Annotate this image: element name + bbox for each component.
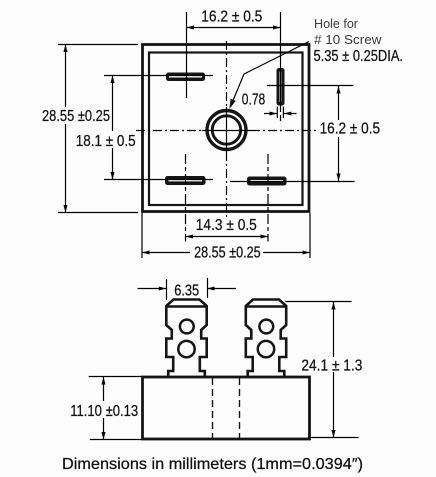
center mounting hole inner circle xyxy=(212,116,240,144)
terminal left lower hole xyxy=(178,341,194,357)
svg-text:Hole for: Hole for xyxy=(314,16,359,31)
dimension 11.10: line and arrows xyxy=(101,377,105,440)
dimension 6.35: text xyxy=(174,283,199,300)
centerline through slot T3 xyxy=(185,154,187,242)
dimension 11.10: extension lines xyxy=(89,377,142,440)
svg-text:6.35: 6.35 xyxy=(174,283,199,300)
dimension 28.55 left: line and arrows xyxy=(63,45,67,213)
dimension 16.2 top: text xyxy=(201,8,262,25)
dimension 18.1: extension lines through left slots xyxy=(104,76,213,180)
terminal right upper hole xyxy=(259,320,273,334)
dimension 6.35: extension lines xyxy=(167,278,208,300)
terminal slot T4 bottom-right xyxy=(247,177,287,186)
front view body xyxy=(143,377,310,439)
front view faston terminal left xyxy=(166,300,206,378)
dimension 18.1: text xyxy=(76,133,136,150)
dimension 24.1: line and arrows xyxy=(331,302,335,438)
package outline top view outer square xyxy=(143,45,310,212)
front view hidden hole lines xyxy=(213,378,240,438)
footer note text xyxy=(62,456,363,473)
terminal left upper hole xyxy=(180,320,194,334)
vertical centerline of package xyxy=(226,41,228,220)
dimension 28.55 bottom: extension lines xyxy=(142,213,310,258)
dimension 11.10: text xyxy=(70,403,138,420)
dimension 16.2 right: extension lines xyxy=(230,86,355,182)
svg-text:0.78: 0.78 xyxy=(242,92,266,109)
dimension 6.35: arrows xyxy=(138,286,237,290)
dimension 18.1: line and arrows xyxy=(110,76,114,180)
terminal right lower hole xyxy=(258,341,274,357)
svg-text:28.55 ±0.25: 28.55 ±0.25 xyxy=(194,245,261,262)
leader line to mounting hole xyxy=(229,42,309,110)
terminal slot T2 top-right vertical xyxy=(277,68,285,106)
dimension 24.1: extension lines xyxy=(285,302,358,438)
svg-text:28.55 ±0.25: 28.55 ±0.25 xyxy=(42,108,110,125)
svg-text:18.1 ± 0.5: 18.1 ± 0.5 xyxy=(76,133,136,150)
dimension 28.55 bottom: text xyxy=(194,245,261,262)
dimension 16.2 top: line and arrows xyxy=(187,25,281,29)
package outline top view inner square xyxy=(149,53,303,206)
terminal slot T1 top-left xyxy=(166,73,205,82)
svg-text:16.2 ± 0.5: 16.2 ± 0.5 xyxy=(201,8,262,25)
svg-text:5.35 ± 0.25DIA.: 5.35 ± 0.25DIA. xyxy=(314,48,404,65)
dimension 28.55 bottom: line and arrows xyxy=(142,250,310,254)
dimension 0.78: ticks arrows xyxy=(264,107,297,119)
centerline through slot T1 xyxy=(186,12,188,98)
svg-text:11.10 ±0.13: 11.10 ±0.13 xyxy=(70,403,138,420)
svg-text:# 10 Screw: # 10 Screw xyxy=(314,32,382,47)
dimension 16.2 right: text xyxy=(320,121,381,138)
terminal slot T3 bottom-left xyxy=(165,176,206,185)
svg-text:16.2 ± 0.5: 16.2 ± 0.5 xyxy=(320,121,381,138)
centerline through slot T4 xyxy=(267,154,269,242)
center mounting hole outer circle xyxy=(207,111,246,150)
dimension 0.78: text xyxy=(242,92,266,109)
dimension 28.55 left: text xyxy=(42,108,110,125)
dimension 14.3 bottom: text xyxy=(196,217,257,234)
horizontal centerline of package xyxy=(136,130,318,132)
dimension 16.2 right: line and arrows xyxy=(336,86,340,181)
centerline through slot T2 xyxy=(280,12,282,124)
annotation hole for #10 screw: text xyxy=(314,16,404,65)
dimension 28.55 left: extension lines xyxy=(58,45,138,213)
svg-text:14.3 ± 0.5: 14.3 ± 0.5 xyxy=(196,217,257,234)
dimension 14.3 bottom: line and arrows xyxy=(186,234,269,238)
front view faston terminal right xyxy=(246,300,286,378)
svg-text:Dimensions in millimeters (1mm: Dimensions in millimeters (1mm=0.0394″) xyxy=(62,456,363,473)
svg-text:24.1 ± 1.3: 24.1 ± 1.3 xyxy=(301,358,362,375)
dimension 24.1: text xyxy=(301,358,362,375)
